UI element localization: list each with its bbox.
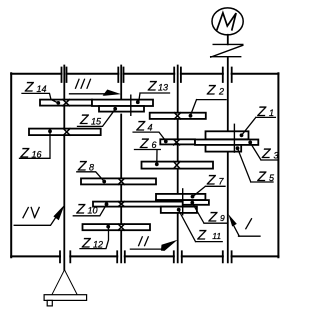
- svg-text:3: 3: [274, 150, 279, 160]
- label Z14 leader: [22, 93, 58, 103]
- gear Z8 on shaft III: [81, 178, 156, 184]
- bearing shaft II bottom: [174, 251, 182, 262]
- label Z9 leader: [192, 203, 227, 223]
- svg-text:13: 13: [158, 82, 168, 92]
- motor M1: [212, 8, 243, 35]
- housing frame: [11, 73, 278, 257]
- svg-text:Z: Z: [136, 117, 146, 133]
- numeral III strokes: [76, 79, 91, 88]
- gear Z1 on shaft I: [206, 131, 249, 139]
- sliding mark gear Z16: [63, 129, 70, 136]
- svg-text:Z: Z: [81, 235, 91, 251]
- label Z11 leader: [179, 210, 223, 241]
- sliding mark gear Z8: [118, 178, 124, 184]
- label Z15 leader: [78, 109, 116, 126]
- svg-text:Z: Z: [206, 82, 216, 98]
- bearing shaft III bottom: [117, 251, 125, 262]
- shaft II: [177, 66, 179, 263]
- label II arrow (shaft II): [130, 247, 166, 250]
- svg-text:4: 4: [148, 122, 153, 132]
- svg-text:Z: Z: [139, 135, 149, 151]
- label Z2 leader: [191, 100, 227, 116]
- svg-text:1: 1: [269, 108, 274, 118]
- shaft I: [227, 35, 229, 262]
- sliding mark gear Z10: [118, 202, 124, 207]
- svg-text:14: 14: [37, 84, 47, 94]
- numeral II strokes: [139, 237, 149, 246]
- gear Z14 on shaft IV: [40, 100, 92, 106]
- numeral I stroke: [246, 219, 252, 229]
- svg-text:Z: Z: [147, 77, 157, 93]
- bearing shaft IV bottom: [60, 251, 70, 262]
- motor letter M: [217, 13, 236, 30]
- label Z12 leader: [80, 227, 109, 249]
- gear Z9 on shaft II: [156, 200, 209, 205]
- svg-text:2: 2: [218, 87, 224, 97]
- svg-text:9: 9: [220, 213, 225, 223]
- label Z5 leader: [238, 148, 274, 182]
- sleeve line of gear block Z13-Z15: [130, 95, 132, 115]
- gear Z13 on shaft III: [92, 100, 153, 106]
- svg-text:Z: Z: [197, 226, 207, 242]
- label IV arrow (shaft IV): [14, 216, 57, 226]
- bearing shaft II top: [174, 68, 181, 83]
- gear Z15 on shaft III: [99, 106, 144, 112]
- sleeve line of gear block Z7-Z9-Z11: [182, 189, 184, 215]
- bearing shaft I top: [223, 68, 232, 83]
- svg-text:Z: Z: [79, 111, 89, 127]
- svg-text:Z: Z: [20, 144, 30, 160]
- gear Z5 on shaft I: [206, 145, 242, 152]
- svg-text:Z: Z: [261, 145, 271, 161]
- svg-text:12: 12: [93, 240, 103, 250]
- shaft IV: [63, 66, 65, 270]
- bearing shaft III top: [118, 68, 123, 83]
- gear Z7 on shaft II: [156, 194, 205, 200]
- label III arrow (shaft III): [70, 93, 113, 95]
- svg-text:Z: Z: [208, 209, 218, 225]
- gear Z10 on shaft III: [93, 202, 183, 207]
- label Z4 leader: [133, 132, 166, 141]
- svg-text:Z: Z: [257, 168, 267, 184]
- gear Z2 on shaft II: [150, 113, 206, 119]
- bearing shaft IV top: [62, 68, 67, 83]
- svg-text:Z: Z: [77, 157, 87, 173]
- shaft III: [120, 66, 122, 263]
- bearing shaft I bottom: [223, 251, 232, 262]
- support of shaft IV: [52, 270, 77, 295]
- svg-text:Z: Z: [206, 171, 216, 187]
- svg-text:6: 6: [152, 140, 157, 150]
- svg-text:16: 16: [32, 149, 42, 159]
- gear Z6 on shaft II: [142, 162, 214, 169]
- coupling (elastic) between motor and shaft I: [211, 44, 243, 57]
- sleeve line of gear block Z1-Z3-Z5: [233, 124, 235, 152]
- gear Z3 on shaft I: [195, 140, 258, 145]
- label Z7 leader: [193, 186, 225, 196]
- label I arrow (shaft I): [234, 226, 260, 237]
- gear Z4 on shaft II: [160, 139, 195, 144]
- label Z13 leader: [139, 93, 170, 101]
- svg-text:8: 8: [89, 162, 94, 172]
- gear Z12 on shaft III: [83, 224, 151, 230]
- label Z6 leader: [135, 150, 161, 165]
- svg-text:Z: Z: [76, 201, 86, 217]
- sliding mark gear Z2: [174, 113, 180, 119]
- svg-text:11: 11: [212, 231, 221, 241]
- label Z16 leader: [20, 131, 51, 158]
- gear Z16 on shaft IV: [29, 129, 101, 136]
- svg-text:15: 15: [91, 116, 102, 126]
- svg-text:Z: Z: [24, 79, 34, 95]
- svg-text:Z: Z: [257, 103, 267, 119]
- label Z8 leader: [77, 172, 104, 181]
- sliding mark gear Z4: [174, 140, 180, 145]
- sliding mark gear Z14: [63, 100, 70, 106]
- sliding mark gear Z6: [174, 162, 180, 169]
- numeral IV strokes: [23, 207, 39, 217]
- label Z1 leader: [242, 117, 276, 135]
- sliding mark gear Z12: [118, 224, 124, 230]
- svg-text:10: 10: [88, 206, 98, 216]
- gear Z11 on shaft II: [161, 207, 197, 213]
- label Z3 leader: [250, 143, 277, 160]
- label Z10 leader: [73, 205, 106, 216]
